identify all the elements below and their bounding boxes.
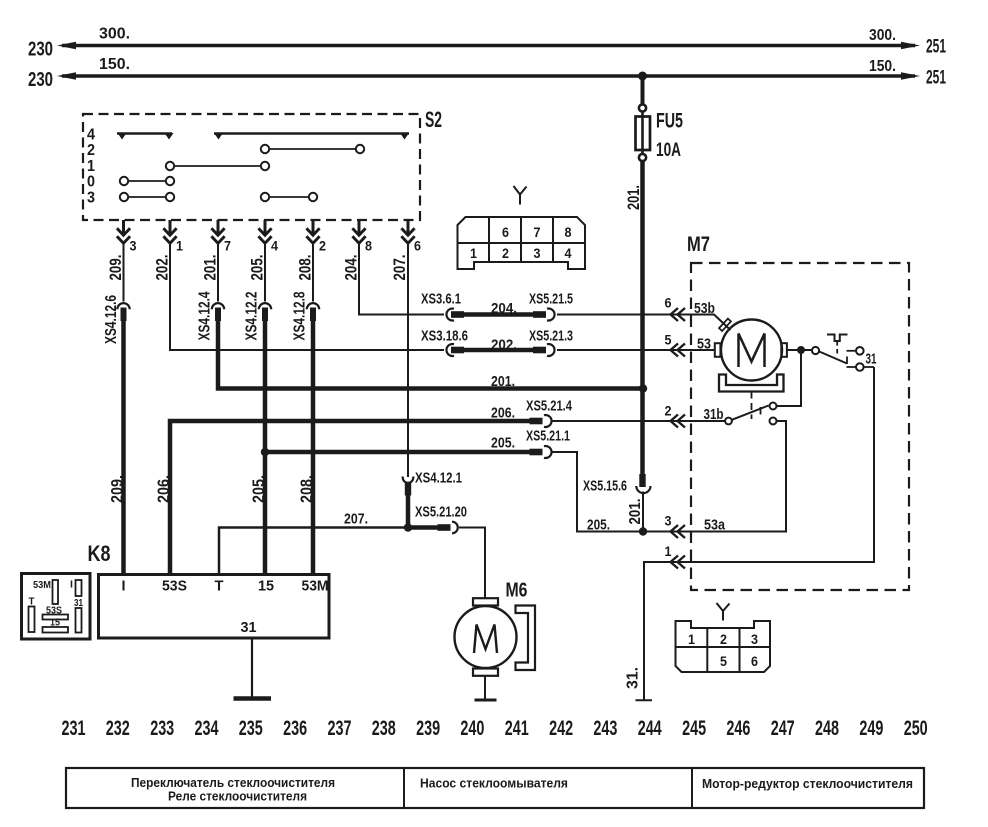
svg-text:Мотор-редуктор стеклоочистител: Мотор-редуктор стеклоочистителя <box>702 776 913 791</box>
connector XS5.21.4 <box>530 415 552 427</box>
svg-text:S2: S2 <box>425 107 442 132</box>
chevron pin 3 <box>671 525 686 538</box>
wire 209 thick to K8 terminal I <box>121 319 126 574</box>
svg-text:231: 231 <box>62 717 86 740</box>
svg-text:XS3.18.6: XS3.18.6 <box>421 328 468 345</box>
chevron pin 5 <box>671 344 686 357</box>
svg-text:234: 234 <box>195 717 219 740</box>
wire 204/53b thin to chevron <box>557 314 691 316</box>
S2 row0 contact <box>120 177 174 185</box>
svg-text:1: 1 <box>470 245 477 261</box>
svg-text:XS5.21.5: XS5.21.5 <box>529 291 573 308</box>
wire 205 thin from S2 pin4 <box>264 242 266 302</box>
socket slot 15 <box>43 627 69 633</box>
wire 205 thick to K8 terminal 15 <box>263 319 268 574</box>
svg-text:10A: 10A <box>656 140 681 161</box>
svg-text:201.: 201. <box>624 185 643 210</box>
wire 53b inside M7 <box>691 315 731 331</box>
svg-text:Реле стеклоочистителя: Реле стеклоочистителя <box>168 789 307 804</box>
wire M6 to ground <box>484 676 486 700</box>
wire from bus to fuse FU5 <box>641 76 645 104</box>
S2 pin 2 arrow <box>306 220 319 243</box>
svg-text:XS4.12.1: XS4.12.1 <box>415 470 462 487</box>
svg-text:53S: 53S <box>162 578 187 595</box>
socket slot T <box>29 607 35 633</box>
wire 201 thin below connector <box>642 492 644 532</box>
svg-text:233: 233 <box>150 717 174 740</box>
wire K8 31 to ground <box>251 638 253 697</box>
pump M6 mount bracket <box>516 606 536 671</box>
pump motor M6 circle <box>455 606 517 668</box>
connector XS4.12.6 <box>117 303 129 321</box>
coordinate scale 231-250 <box>62 717 928 740</box>
svg-text:4: 4 <box>87 127 95 144</box>
wire 202/53 thin to chevron <box>557 349 691 351</box>
svg-text:T: T <box>215 578 224 595</box>
svg-text:6: 6 <box>751 653 758 669</box>
svg-text:Насос стеклоомывателя: Насос стеклоомывателя <box>420 776 568 791</box>
svg-text:2: 2 <box>319 238 326 254</box>
svg-text:247: 247 <box>771 717 795 740</box>
svg-text:3: 3 <box>751 631 758 647</box>
svg-text:205.: 205. <box>248 255 267 281</box>
changeover switch upper contact <box>770 403 777 410</box>
junction motor terminal node <box>797 346 805 354</box>
svg-text:209.: 209. <box>108 475 127 503</box>
svg-text:XS4.12.8: XS4.12.8 <box>292 291 309 340</box>
socket slot 31 <box>76 608 82 633</box>
S2 row4 travel bar a <box>117 133 174 140</box>
connector XS5.21.20 <box>438 522 458 534</box>
svg-text:5: 5 <box>665 332 672 348</box>
svg-text:M6: M6 <box>506 580 528 602</box>
svg-text:236: 236 <box>283 717 307 740</box>
bus line 150 <box>57 72 920 79</box>
wire 31 chevron1 row <box>644 367 874 700</box>
motor M7 left brush tab <box>715 343 721 357</box>
svg-text:3: 3 <box>665 513 672 529</box>
svg-text:2: 2 <box>87 142 95 159</box>
S2 row3 contact b <box>261 193 317 201</box>
wire 53a row to M7 <box>643 421 786 532</box>
pump M6 bottom terminal tab <box>473 669 498 676</box>
pump M6 top terminal tab <box>473 598 498 605</box>
wire 207 thick elbow <box>408 494 439 528</box>
svg-text:251: 251 <box>926 68 946 89</box>
connector XS5.15.6 on bus 201 <box>636 474 650 493</box>
svg-text:237: 237 <box>328 717 352 740</box>
svg-text:I: I <box>70 580 73 591</box>
connector XS4.12.1 <box>403 477 414 496</box>
svg-text:201.: 201. <box>627 499 644 525</box>
connector block X2 grid <box>676 628 771 672</box>
socket slot 53S <box>43 615 69 620</box>
svg-text:53M: 53M <box>302 578 329 595</box>
svg-text:230: 230 <box>28 69 53 91</box>
wire 31 end terminator <box>636 699 653 701</box>
svg-text:I: I <box>122 578 126 595</box>
svg-text:150.: 150. <box>99 56 130 73</box>
wire lower contact to 53a riser <box>777 420 787 422</box>
svg-text:1: 1 <box>87 158 95 175</box>
svg-text:205.: 205. <box>491 435 515 452</box>
svg-text:207.: 207. <box>390 255 409 281</box>
wire 205 thick branch row <box>265 450 531 455</box>
svg-text:FU5: FU5 <box>656 110 683 133</box>
svg-text:201.: 201. <box>491 373 515 390</box>
junction on bus 150 <box>638 72 647 81</box>
svg-text:2: 2 <box>665 403 672 419</box>
S2 row2 contact <box>261 145 364 153</box>
limit switch arm <box>819 352 847 365</box>
limit switch movable contact circle <box>812 347 819 354</box>
svg-text:246: 246 <box>726 717 750 740</box>
svg-text:250: 250 <box>904 717 928 740</box>
motor M7 letter M <box>739 334 765 368</box>
svg-text:XS4.12.4: XS4.12.4 <box>197 291 214 340</box>
svg-text:208.: 208. <box>296 255 315 281</box>
svg-text:1: 1 <box>176 238 183 254</box>
wire 53 inside M7 <box>691 349 715 351</box>
svg-text:2: 2 <box>720 631 727 647</box>
svg-text:239: 239 <box>416 717 440 740</box>
svg-text:202.: 202. <box>491 337 517 354</box>
relay K8 box <box>99 575 330 639</box>
legend table <box>66 768 924 808</box>
S2 pin 4 arrow <box>258 220 271 243</box>
pump motor M6 letter M <box>474 625 497 654</box>
svg-text:204.: 204. <box>342 255 361 281</box>
S2 pin 8 arrow <box>352 220 365 243</box>
svg-text:244: 244 <box>638 717 662 740</box>
svg-text:300.: 300. <box>869 27 896 44</box>
svg-text:3: 3 <box>534 245 541 261</box>
svg-text:XS4.12.2: XS4.12.2 <box>244 291 261 340</box>
junction 201 row with bus <box>639 384 647 392</box>
svg-text:8: 8 <box>565 224 572 240</box>
svg-text:4: 4 <box>565 245 572 261</box>
motor-reducer M7 dashed box <box>691 263 909 590</box>
wire 31b inside M7 <box>691 420 725 422</box>
wire 208 thin from S2 pin2 <box>312 242 314 302</box>
svg-text:240: 240 <box>460 717 484 740</box>
wire 206/31b thin to chevron <box>552 420 691 422</box>
svg-text:150.: 150. <box>869 58 896 75</box>
contact 31 lower <box>847 363 875 371</box>
chevron pin 2 <box>671 415 686 428</box>
fuse FU5 10A <box>636 104 651 161</box>
svg-text:53M: 53M <box>33 580 51 591</box>
svg-text:238: 238 <box>372 717 396 740</box>
connector XS5.21.1 <box>530 446 552 458</box>
S2 row1 contact <box>166 162 269 170</box>
svg-text:209.: 209. <box>106 255 125 281</box>
svg-text:251: 251 <box>926 37 946 58</box>
contact 31 upper <box>847 347 864 355</box>
svg-text:206.: 206. <box>491 405 515 422</box>
svg-text:230: 230 <box>28 39 53 61</box>
wire 202 thin from S2 pin1 to XS3.18.6 <box>170 242 444 350</box>
connector block X2 (6-way) outline <box>676 621 771 672</box>
S2 pin 6 arrow <box>401 220 414 243</box>
svg-text:208.: 208. <box>297 475 316 503</box>
svg-text:7: 7 <box>224 238 231 254</box>
motor M7 circle <box>721 320 782 381</box>
ground (M6) <box>475 699 497 702</box>
svg-text:235: 235 <box>239 717 263 740</box>
svg-text:2: 2 <box>502 245 509 261</box>
connector block X1 grid <box>458 217 586 262</box>
changeover switch 31b arm <box>732 406 769 420</box>
S2 row4 travel bar b <box>214 133 409 140</box>
motor M7 base bracket <box>719 375 784 392</box>
svg-text:249: 249 <box>859 717 883 740</box>
wire 201 thin from S2 pin7 <box>217 242 219 302</box>
wire 208 thick to K8 terminal 53M <box>311 319 316 574</box>
wire 205 thin link down <box>552 452 643 532</box>
svg-text:XS5.21.3: XS5.21.3 <box>529 328 573 345</box>
antenna mark above connector block X1 <box>514 186 527 205</box>
K8 socket detail box <box>22 574 91 640</box>
svg-text:6: 6 <box>502 224 509 240</box>
svg-text:5: 5 <box>720 653 727 669</box>
wire motor output to junction <box>787 349 812 351</box>
svg-text:XS4.12.6: XS4.12.6 <box>103 295 120 344</box>
svg-text:6: 6 <box>414 238 421 254</box>
wire 207 thin to K8 terminal T <box>219 528 408 575</box>
svg-text:XS3.6.1: XS3.6.1 <box>421 291 461 308</box>
svg-text:3: 3 <box>130 238 137 254</box>
wire thin to pump M6 <box>459 528 485 599</box>
svg-text:K8: K8 <box>88 541 111 566</box>
S2 pin 1 arrow <box>163 220 176 243</box>
svg-text:7: 7 <box>534 224 541 240</box>
svg-text:242: 242 <box>549 717 573 740</box>
svg-text:232: 232 <box>106 717 130 740</box>
junction 205 branch <box>261 448 269 456</box>
S2 row3 contact a <box>120 193 174 201</box>
connector block X1 (8-way) outline <box>458 217 586 269</box>
svg-text:1: 1 <box>688 631 695 647</box>
svg-text:207.: 207. <box>344 511 368 528</box>
svg-text:31.: 31. <box>625 667 642 689</box>
junction 207 row <box>404 523 412 531</box>
svg-text:XS5.15.6: XS5.15.6 <box>583 478 627 495</box>
socket slot I <box>76 580 82 596</box>
thermal actuator symbol <box>827 335 848 358</box>
changeover switch lower contact <box>770 418 777 425</box>
svg-text:245: 245 <box>682 717 706 740</box>
wire 207 thin from S2 pin6 <box>407 242 409 477</box>
motor M7 right brush tab <box>781 343 787 357</box>
junction 201/205 row <box>639 527 647 535</box>
chevron pin 6 <box>671 308 686 321</box>
wire 204 thin from S2 pin8 to XS3.6.1 <box>359 242 444 315</box>
svg-text:205.: 205. <box>587 517 610 534</box>
switch S2 dashed box <box>83 114 420 220</box>
svg-text:3: 3 <box>87 190 95 207</box>
connector XS4.12.4 <box>212 303 224 321</box>
wire 209 thin from S2 pin3 <box>123 242 125 302</box>
S2 pin 3 arrow <box>117 220 130 243</box>
svg-text:XS5.21.4: XS5.21.4 <box>526 398 572 415</box>
svg-text:206.: 206. <box>154 475 173 503</box>
svg-text:XS5.21.1: XS5.21.1 <box>526 428 570 445</box>
socket slot 53M <box>53 580 59 604</box>
svg-text:4: 4 <box>271 238 278 254</box>
chevron pin 1 <box>671 556 686 569</box>
svg-text:8: 8 <box>365 238 372 254</box>
svg-text:1: 1 <box>665 543 672 559</box>
antenna mark above connector block X2 <box>717 603 730 621</box>
svg-text:15: 15 <box>258 578 274 595</box>
connector pair XS3.18.6 / XS5.21.3, wire 202 <box>446 344 554 356</box>
wire 201 vertical bus from fuse down to connector XS5.15.6 <box>640 161 645 475</box>
svg-text:204.: 204. <box>491 300 517 317</box>
svg-text:XS5.21.20: XS5.21.20 <box>415 504 467 521</box>
svg-text:243: 243 <box>593 717 617 740</box>
svg-text:M7: M7 <box>687 233 710 256</box>
svg-text:300.: 300. <box>99 26 130 43</box>
wire junction down to 31b changeover <box>777 350 801 406</box>
svg-text:205.: 205. <box>249 475 268 503</box>
svg-text:31: 31 <box>241 619 257 636</box>
wire 206 thick from K8 53S up and right <box>170 421 531 574</box>
svg-text:0: 0 <box>87 174 95 191</box>
svg-text:6: 6 <box>665 295 672 311</box>
bus line 300 <box>57 42 920 49</box>
wire 201 thick elbow to bus <box>218 319 643 389</box>
ground (K8) <box>234 696 272 701</box>
svg-text:31: 31 <box>866 351 877 368</box>
connector XS4.12.8 <box>307 303 319 321</box>
motor M7 brush tab 53b (diagonal) <box>719 319 731 331</box>
S2 pin 7 arrow <box>211 220 224 243</box>
mechanical linkage (dashed) <box>751 392 753 420</box>
svg-text:202.: 202. <box>153 255 172 281</box>
changeover switch 31b left contact circle <box>725 418 732 425</box>
svg-text:241: 241 <box>505 717 529 740</box>
connector XS4.12.2 <box>259 303 271 321</box>
svg-text:201.: 201. <box>201 255 220 281</box>
svg-text:248: 248 <box>815 717 839 740</box>
connector pair XS3.6.1 / XS5.21.5, wire 204 <box>446 308 554 320</box>
